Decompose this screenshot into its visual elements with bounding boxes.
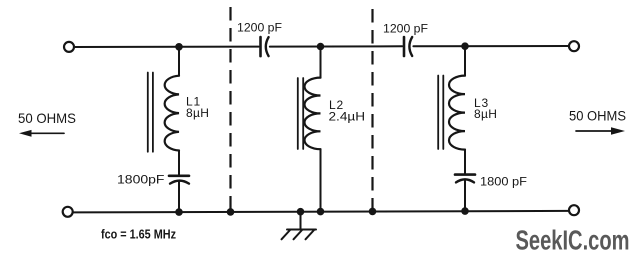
svg-text:8µH: 8µH	[186, 106, 209, 120]
capacitor C4 1800 pF (below L3)	[455, 174, 528, 211]
capacitor C1 1200 pF (series, top rail)	[237, 21, 282, 57]
wire top rail left segment	[75, 46, 259, 48]
node bottom rail / ground	[297, 208, 305, 216]
terminal top-left	[64, 42, 74, 52]
wire top rail middle segment	[270, 45, 402, 47]
svg-text:2.4µH: 2.4µH	[329, 110, 366, 124]
terminal top-right	[569, 41, 579, 51]
node top rail / L1	[175, 43, 183, 51]
node top rail / L2	[317, 43, 325, 51]
inductor L1 8uH (with core)	[148, 47, 209, 176]
terminal bottom-left	[63, 207, 73, 217]
node bottom rail / C3	[175, 208, 183, 216]
svg-text:50 OHMS: 50 OHMS	[569, 108, 626, 123]
wire bottom rail	[73, 211, 569, 213]
svg-text:SeekIC.com: SeekIC.com	[516, 224, 630, 255]
svg-text:fco = 1.65 MHz: fco = 1.65 MHz	[101, 227, 176, 242]
label 50 OHMS right with arrow	[569, 108, 626, 135]
svg-text:50 OHMS: 50 OHMS	[18, 110, 76, 126]
node bottom rail / C4	[461, 207, 469, 215]
terminal bottom-right	[569, 205, 579, 215]
inductor L3 8uH (with core)	[438, 46, 497, 174]
svg-text:1200 pF: 1200 pF	[383, 22, 428, 36]
label fco = 1.65 MHz	[101, 227, 176, 242]
node bottom rail / shield left	[227, 208, 235, 216]
capacitor C2 1200 pF (series, top rail)	[383, 22, 428, 57]
inductor L2 2.4uH (with core)	[298, 47, 365, 212]
svg-text:8µH: 8µH	[474, 107, 497, 121]
wire top rail right segment	[413, 45, 569, 47]
ground (chassis)	[282, 212, 317, 240]
node bottom rail / L2	[317, 208, 325, 216]
node top rail / L3	[461, 42, 469, 50]
svg-text:1800 pF: 1800 pF	[480, 174, 528, 188]
shield partition (dashed) left	[229, 7, 231, 212]
watermark SeekIC.com	[516, 224, 630, 255]
node bottom rail / shield right	[369, 208, 377, 216]
svg-text:1800pF: 1800pF	[117, 172, 165, 186]
svg-text:1200 pF: 1200 pF	[237, 21, 282, 35]
shield partition (dashed) right	[371, 9, 373, 211]
capacitor C3 1800 pF (below L1)	[117, 172, 189, 212]
label 50 OHMS left with arrow	[18, 110, 76, 137]
